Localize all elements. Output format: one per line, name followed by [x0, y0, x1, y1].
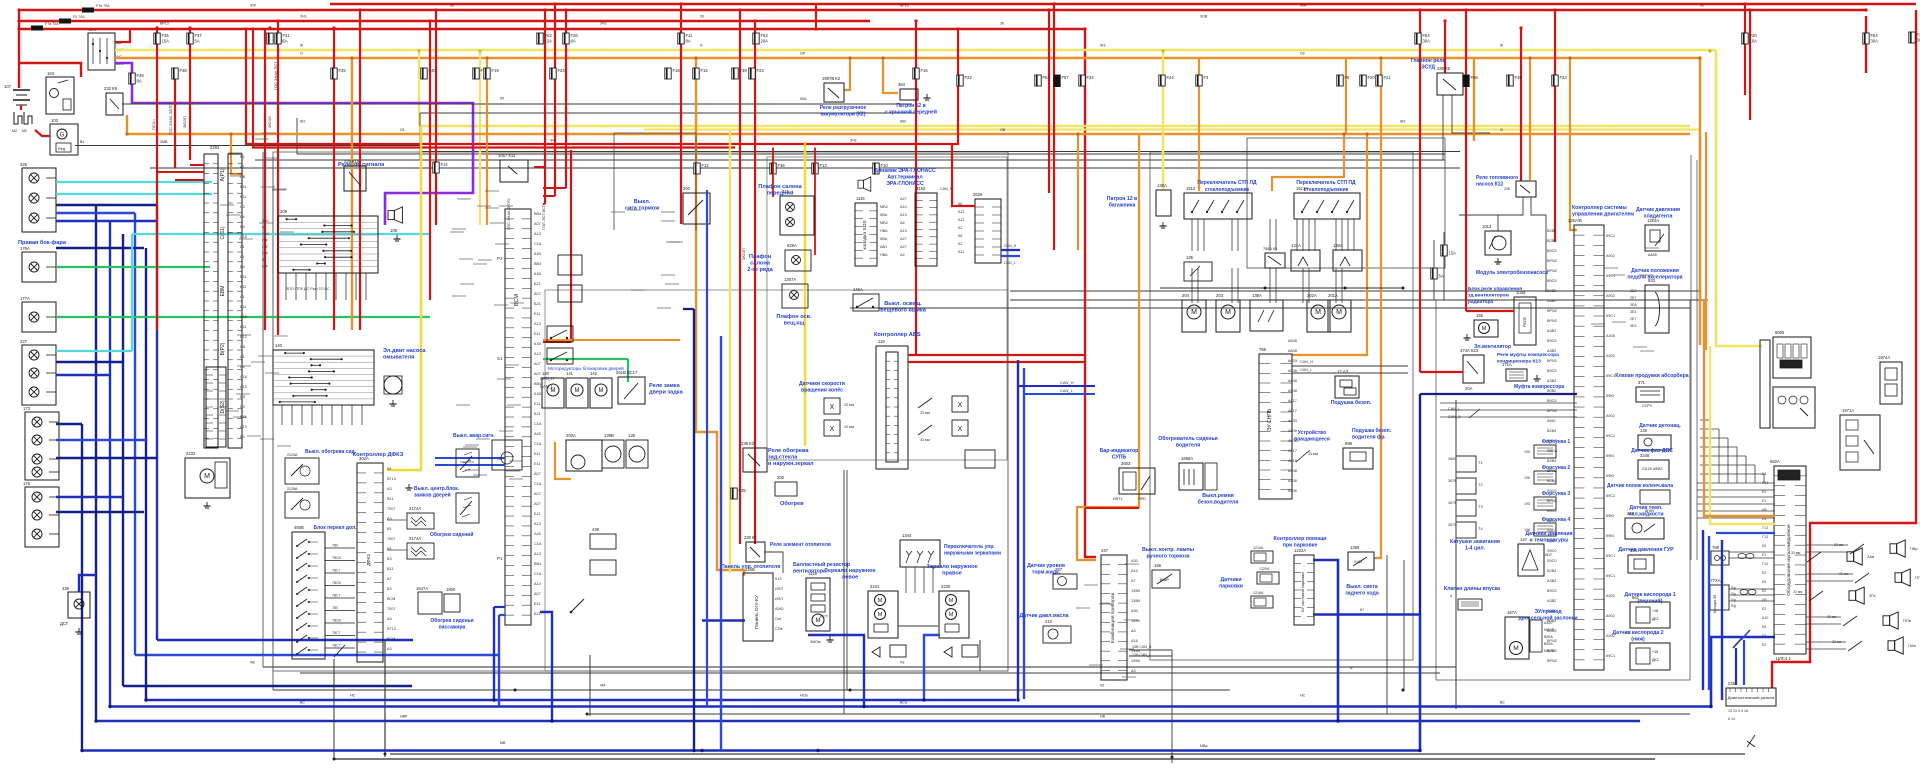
svg-text:P1: P1 [497, 556, 503, 561]
svg-text:А1: А1 [240, 165, 245, 169]
svg-text:F47: F47 [195, 33, 203, 38]
svg-text:СУПБ: СУПБ [1112, 455, 1127, 461]
svg-text:30: 30 [1700, 4, 1704, 8]
svg-text:F26: F26 [571, 33, 579, 38]
svg-text:ЗМВ: ЗМВ [160, 140, 168, 144]
svg-text:педали акселератора: педали акселератора [1627, 275, 1682, 281]
svg-text:Б21: Б21 [534, 512, 541, 516]
svg-text:238 К3: 238 К3 [741, 441, 755, 446]
svg-text:А508: А508 [1288, 389, 1297, 393]
svg-text:А508: А508 [1288, 469, 1297, 473]
svg-text:Ч3: Ч3 [900, 661, 904, 665]
svg-text:F35: F35 [739, 488, 747, 493]
svg-text:ВСМ: ВСМ [387, 637, 395, 641]
svg-text:2626: 2626 [973, 192, 983, 197]
svg-text:8A: 8A [571, 39, 576, 44]
svg-text:Г13: Г13 [1762, 562, 1768, 566]
svg-text:В1: В1 [80, 140, 84, 144]
svg-text:А45: А45 [534, 532, 541, 536]
svg-text:В3: В3 [387, 557, 392, 561]
svg-text:левое: левое [842, 575, 858, 581]
svg-text:СAN_Н: СAN_Н [1300, 360, 1313, 364]
svg-text:Е1: Е1 [1762, 499, 1766, 503]
svg-text:131А: 131А [1291, 243, 1301, 248]
svg-text:А(Р1): А(Р1) [220, 168, 226, 181]
svg-text:Датчик фаз ДВС: Датчик фаз ДВС [1631, 447, 1673, 454]
svg-text:Ч2: Ч2 [1100, 684, 1104, 688]
svg-text:НВ: НВ [1100, 715, 1106, 719]
svg-text:В713: В713 [387, 627, 396, 631]
svg-text:С1А: С1А [534, 422, 542, 426]
svg-text:А2: А2 [900, 253, 905, 257]
svg-text:6 14: 6 14 [1728, 717, 1735, 721]
svg-text:G: G [60, 133, 65, 139]
svg-text:Б21: Б21 [534, 612, 541, 616]
svg-text:ВРN2: ВРN2 [1547, 659, 1557, 663]
svg-text:А1: А1 [240, 255, 245, 259]
svg-text:7В0: 7В0 [332, 544, 338, 548]
svg-text:F57: F57 [1062, 75, 1070, 80]
svg-text:К9С2: К9С2 [1606, 234, 1615, 238]
svg-text:ЗЧ2: ЗЧ2 [850, 139, 857, 143]
svg-text:15A: 15A [162, 39, 170, 44]
svg-text:15В СAN_В: 15В СAN_В [1132, 645, 1152, 649]
svg-text:139В: 139В [1131, 589, 1140, 593]
svg-text:209: 209 [280, 209, 288, 214]
svg-text:В55А: В55А [1544, 635, 1553, 639]
svg-text:Обогреватель сиденья: Обогреватель сиденья [1158, 435, 1218, 442]
svg-text:водителя фр.: водителя фр. [1352, 434, 1386, 441]
svg-text:А13: А13 [534, 582, 541, 586]
svg-text:3679: 3679 [1448, 523, 1456, 527]
svg-text:201А: 201А [1328, 293, 1338, 298]
svg-text:F41: F41 [283, 33, 291, 38]
svg-text:МКОВ: МКОВ [1544, 628, 1555, 632]
svg-text:ЧВ: ЧВ [250, 661, 255, 665]
svg-text:7ВС7: 7ВС7 [332, 644, 340, 648]
svg-text:А3В2: А3В2 [1547, 579, 1556, 583]
svg-text:А27: А27 [900, 237, 907, 241]
svg-text:Датчик кислорода 2: Датчик кислорода 2 [1612, 630, 1663, 636]
svg-text:163: 163 [47, 71, 55, 76]
svg-text:139В: 139В [1131, 599, 1140, 603]
svg-text:267: 267 [1055, 567, 1063, 572]
svg-text:Форсунка 3: Форсунка 3 [1542, 491, 1571, 497]
svg-text:А608: А608 [1288, 379, 1297, 383]
svg-text:ДК2: ДК2 [1652, 658, 1659, 662]
svg-text:225В: 225В [745, 567, 755, 572]
svg-text:Выкл. контр. лампы: Выкл. контр. лампы [1142, 547, 1195, 553]
svg-text:А07: А07 [534, 222, 541, 226]
svg-text:В3: В3 [387, 587, 392, 591]
svg-text:2174А: 2174А [409, 506, 421, 511]
svg-text:ВСа: ВСа [900, 701, 907, 705]
svg-text:Е11: Е11 [240, 195, 246, 199]
svg-text:F24: F24 [558, 68, 566, 73]
svg-text:F20: F20 [1750, 33, 1758, 38]
svg-text:В2В4: В2В4 [1547, 569, 1556, 573]
svg-text:21129 АФИЗ: 21129 АФИЗ [1642, 467, 1663, 471]
svg-text:МВа: МВа [1200, 744, 1207, 748]
svg-text:227: 227 [20, 339, 28, 344]
svg-text:А506: А506 [1288, 369, 1297, 373]
svg-text:омывателя: омывателя [383, 355, 414, 361]
svg-text:К1В: К1В [534, 252, 541, 256]
svg-text:M: M [1191, 309, 1197, 316]
svg-text:Правая бок-фара: Правая бок-фара [18, 239, 67, 246]
svg-text:А10: А10 [1762, 616, 1768, 620]
svg-text:А07: А07 [534, 492, 541, 496]
svg-text:А2: А2 [958, 242, 962, 246]
svg-text:А13: А13 [240, 385, 247, 389]
svg-text:Подушка безоп.: Подушка безоп. [1352, 427, 1392, 434]
svg-text:А13: А13 [900, 229, 907, 233]
svg-text:Устройство: Устройство [1298, 429, 1327, 436]
svg-text:К9С2: К9С2 [1606, 494, 1615, 498]
svg-text:А11: А11 [958, 250, 964, 254]
svg-text:А6: А6 [958, 234, 962, 238]
svg-text:РЕЛЕ: РЕЛЕ [1523, 316, 1527, 327]
svg-text:А633: А633 [1288, 419, 1297, 423]
svg-text:К7: К7 [1360, 608, 1364, 612]
svg-text:X: X [958, 426, 963, 433]
svg-text:1013: 1013 [1482, 224, 1492, 229]
svg-text:M: M [878, 612, 883, 618]
svg-text:А902: А902 [1606, 414, 1615, 418]
svg-text:175: 175 [23, 481, 31, 486]
svg-text:АА05: АА05 [1648, 253, 1657, 257]
svg-text:Т3: Т3 [1478, 504, 1483, 509]
svg-text:К3: К3 [1762, 580, 1766, 584]
svg-text:Т4: Т4 [1478, 526, 1483, 531]
svg-text:В2В4: В2В4 [1547, 459, 1556, 463]
svg-text:Е11: Е11 [534, 602, 540, 606]
svg-text:багажника: багажника [1109, 202, 1136, 209]
svg-text:F21: F21 [1384, 75, 1392, 80]
svg-text:ЭУ/привод: ЭУ/привод [1534, 609, 1562, 615]
svg-text:F56: F56 [1471, 75, 1479, 80]
svg-text:699: 699 [1345, 441, 1353, 446]
svg-text:М2: М2 [12, 129, 17, 133]
svg-text:S1: S1 [497, 356, 503, 361]
svg-text:НС: НС [350, 694, 356, 698]
svg-text:А3: А3 [387, 487, 392, 491]
svg-text:А633: А633 [1288, 359, 1297, 363]
svg-text:ВРN2: ВРN2 [1547, 269, 1557, 273]
svg-text:А6: А6 [958, 202, 962, 206]
svg-text:ЗЮЗП: ЗЮЗП [182, 116, 187, 128]
svg-text:Реле обогрева: Реле обогрева [768, 447, 809, 454]
svg-text:7ВС7: 7ВС7 [332, 631, 340, 635]
svg-text:Обогрев: Обогрев [780, 500, 804, 507]
svg-text:БУ системой парковки: БУ системой парковки [1301, 572, 1305, 611]
svg-text:50: 50 [500, 97, 504, 101]
svg-text:30А: 30А [1300, 4, 1307, 8]
svg-text:1647А: 1647А [416, 586, 428, 591]
svg-text:(ниж): (ниж) [1631, 637, 1645, 643]
svg-text:В4: В4 [240, 435, 245, 439]
svg-text:Выкл. света: Выкл. света [1346, 584, 1377, 590]
svg-text:О: О [1500, 128, 1503, 132]
svg-text:вращающееся: вращающееся [1294, 437, 1330, 443]
svg-text:К5: К5 [387, 527, 391, 531]
svg-text:К9С1: К9С1 [1606, 574, 1615, 578]
svg-text:А3: А3 [387, 647, 392, 651]
svg-text:141: 141 [566, 371, 574, 376]
svg-text:Ф: Ф [262, 226, 265, 230]
svg-text:К9Ю: К9Ю [1606, 394, 1614, 398]
svg-text:1997В К2: 1997В К2 [822, 76, 841, 81]
svg-text:НВР: НВР [400, 715, 408, 719]
svg-text:Модуль электробензонасоса: Модуль электробензонасоса [1476, 269, 1548, 276]
svg-text:К9Ю: К9Ю [1606, 514, 1614, 518]
svg-text:Клапан длины впуска: Клапан длины впуска [1444, 586, 1500, 592]
svg-text:Е11: Е11 [240, 305, 246, 309]
svg-text:Контроллер системы: Контроллер системы [1572, 205, 1627, 211]
svg-text:В11: В11 [387, 497, 393, 501]
svg-text:А27: А27 [900, 245, 907, 249]
svg-text:10A: 10A [1750, 39, 1758, 44]
svg-text:В2В4: В2В4 [1547, 429, 1556, 433]
svg-text:M: M [1225, 309, 1231, 316]
svg-text:Датчик давления: Датчик давления [1636, 207, 1680, 213]
svg-text:С1А: С1А [534, 482, 542, 486]
svg-text:А902: А902 [1606, 294, 1615, 298]
svg-text:ГОС.ЗНАК.ПСТ: ГОС.ЗНАК.ПСТ [273, 61, 278, 90]
svg-text:Блок реле управления: Блок реле управления [1468, 286, 1522, 292]
svg-text:МВ2: МВ2 [880, 205, 888, 209]
svg-text:F54: F54 [1043, 75, 1051, 80]
svg-text:2128А: 2128А [287, 487, 298, 491]
svg-text:К5: К5 [387, 467, 391, 471]
svg-text:Форсунка 4: Форсунка 4 [1542, 517, 1571, 523]
svg-text:D8: D8 [240, 345, 245, 349]
svg-text:F49: F49 [137, 73, 145, 78]
svg-text:139В: 139В [1131, 659, 1140, 663]
svg-text:наружными зеркалами: наружными зеркалами [944, 551, 1001, 557]
svg-text:5A: 5A [283, 39, 288, 44]
svg-text:135: 135 [1186, 255, 1194, 260]
svg-text:Sig: Sig [1731, 604, 1736, 608]
svg-text:13 13 5 4 16: 13 13 5 4 16 [1728, 709, 1748, 713]
svg-text:Главное реле: Главное реле [1411, 58, 1446, 64]
svg-text:пассажира: пассажира [439, 625, 466, 631]
svg-text:СAN_L: СAN_L [1060, 388, 1074, 393]
svg-text:M: M [599, 388, 604, 394]
svg-text:С16: С16 [240, 315, 247, 319]
svg-text:+18: +18 [1652, 609, 1658, 613]
svg-text:Реле разгрузочное: Реле разгрузочное [820, 105, 867, 111]
svg-text:Реле топливного: Реле топливного [1476, 175, 1518, 181]
svg-text:А07: А07 [534, 472, 541, 476]
svg-text:А616: А616 [1288, 459, 1297, 463]
svg-text:244: 244 [1627, 511, 1635, 516]
svg-text:А45: А45 [534, 432, 541, 436]
svg-text:15А: 15А [1449, 251, 1457, 256]
svg-text:7007: 7007 [387, 537, 395, 541]
svg-text:371: 371 [1638, 380, 1646, 385]
svg-text:200: 200 [777, 475, 785, 480]
svg-text:30: 30 [450, 4, 454, 8]
svg-text:А5Ю: А5Ю [1547, 419, 1556, 423]
svg-text:3680: 3680 [1448, 457, 1456, 461]
svg-text:195: 195 [1524, 450, 1530, 454]
svg-text:и температуры: и температуры [1530, 538, 1570, 544]
svg-text:А3: А3 [387, 617, 392, 621]
svg-text:203А: 203А [566, 433, 576, 438]
svg-text:зад.стекла: зад.стекла [768, 455, 798, 461]
svg-text:33 мм: 33 мм [920, 438, 930, 442]
svg-text:105: 105 [390, 228, 398, 233]
svg-text:20А: 20А [1465, 386, 1473, 391]
svg-text:НФ: НФ [262, 265, 268, 269]
svg-text:НФ: НФ [262, 245, 268, 249]
svg-text:СAN_Н: СAN_Н [940, 187, 953, 191]
svg-text:ЖВ: ЖВ [900, 120, 906, 124]
svg-text:А13: А13 [534, 322, 541, 326]
svg-text:1222А: 1222А [1294, 548, 1306, 553]
svg-text:474А К33: 474А К33 [1460, 348, 1479, 353]
svg-text:Sig: Sig [1731, 592, 1736, 596]
svg-text:А3: А3 [1131, 629, 1136, 633]
svg-text:2123А: 2123А [287, 453, 298, 457]
svg-text:789: 789 [1712, 545, 1720, 550]
svg-text:Е11: Е11 [240, 285, 246, 289]
svg-text:АС/Т: АС/Т [820, 615, 829, 619]
svg-text:С2: С2 [240, 405, 245, 409]
svg-text:Датчики скорости: Датчики скорости [799, 381, 845, 387]
svg-text:155: 155 [1476, 313, 1484, 318]
svg-text:F52: F52 [545, 33, 553, 38]
svg-text:А608: А608 [1288, 339, 1297, 343]
svg-text:В9С5: В9С5 [1547, 339, 1557, 343]
svg-text:А7: А7 [1131, 579, 1136, 583]
svg-text:1513А: 1513А [1296, 186, 1308, 191]
svg-text:А16: А16 [1131, 639, 1138, 643]
svg-text:F5 70A: F5 70A [73, 15, 85, 19]
svg-text:А3В2: А3В2 [1547, 349, 1556, 353]
svg-text:ГОС.ЗНАК-ЭЛТО: ГОС.ЗНАК-ЭЛТО [168, 104, 173, 135]
svg-text:Выкл. освещ.: Выкл. освещ. [884, 301, 922, 307]
svg-text:СAN_Н: СAN_Н [1004, 244, 1017, 248]
svg-text:C(S1): C(S1) [220, 226, 226, 239]
svg-text:7ВСВ: 7ВСВ [332, 581, 341, 585]
svg-text:Е11: Е11 [534, 312, 540, 316]
svg-text:Е1: Е1 [1762, 490, 1766, 494]
svg-text:А300: А300 [1544, 621, 1552, 625]
svg-text:парковки: парковки [1219, 584, 1243, 590]
svg-text:А3В2: А3В2 [1547, 379, 1556, 383]
svg-text:Е2: Е2 [1762, 589, 1766, 593]
svg-text:ДСГ: ДСГ [60, 621, 69, 626]
svg-text:ВС: ВС [1500, 701, 1505, 705]
svg-text:С2: С2 [240, 205, 245, 209]
svg-text:двери задка: двери задка [649, 390, 684, 396]
svg-text:X: X [958, 402, 963, 409]
svg-text:Эл.двиг насоса: Эл.двиг насоса [383, 348, 426, 354]
svg-text:F3: F3 [1204, 75, 1210, 80]
svg-text:К9Ю: К9Ю [1606, 474, 1614, 478]
svg-text:заднего хода: заднего хода [1345, 591, 1379, 597]
svg-text:В4: В4 [240, 265, 245, 269]
svg-text:M: M [575, 388, 580, 394]
svg-text:ЭРА-ГЛОНАСС: ЭРА-ГЛОНАСС [886, 181, 924, 187]
svg-text:Динамик ЭРА-ГЛОНАСС: Динамик ЭРА-ГЛОНАСС [874, 168, 936, 174]
svg-text:D8: D8 [240, 175, 245, 179]
svg-text:ВР13: ВР13 [900, 4, 909, 8]
svg-text:МКОВ: МКОВ [1544, 649, 1555, 653]
svg-text:Выкл.: Выкл. [634, 199, 651, 205]
svg-text:756: 756 [1259, 347, 1267, 352]
svg-text:2230: 2230 [941, 584, 951, 589]
svg-text:передний: передний [767, 190, 794, 197]
svg-text:АD7: АD7 [1545, 553, 1552, 557]
svg-text:Зеркало наружное: Зеркало наружное [926, 564, 977, 570]
svg-text:202А: 202А [1307, 293, 1317, 298]
svg-text:3248: 3248 [1640, 453, 1650, 458]
svg-text:А30: А30 [1131, 609, 1138, 613]
svg-text:А1: А1 [240, 245, 245, 249]
svg-text:Е2: Е2 [1762, 607, 1766, 611]
svg-text:Форсунка 1: Форсунка 1 [1542, 439, 1571, 445]
svg-text:СAN_L: СAN_L [1300, 368, 1312, 372]
svg-text:В2В4: В2В4 [1547, 229, 1556, 233]
svg-text:К9Ю: К9Ю [1606, 534, 1614, 538]
svg-text:Контроллер помощи: Контроллер помощи [1274, 536, 1327, 542]
svg-text:173: 173 [23, 406, 31, 411]
svg-text:Е2: Е2 [1762, 571, 1766, 575]
svg-text:M: M [949, 612, 954, 618]
svg-text:7ВСВ: 7ВСВ [332, 619, 341, 623]
svg-text:Блок перекл дол.: Блок перекл дол. [313, 525, 357, 531]
svg-text:Форсунка 2: Форсунка 2 [1542, 465, 1571, 471]
svg-text:229 К10: 229 К10 [344, 159, 360, 164]
svg-text:7007: 7007 [387, 607, 395, 611]
svg-text:К9С1: К9С1 [1606, 274, 1615, 278]
svg-text:460В: 460В [294, 525, 304, 530]
svg-text:Балластный резистор: Балластный резистор [793, 561, 850, 568]
svg-text:С1А: С1А [534, 242, 542, 246]
svg-text:33 мм: 33 мм [920, 411, 930, 415]
svg-text:К9С1: К9С1 [1606, 554, 1615, 558]
svg-text:F64: F64 [1423, 33, 1431, 38]
svg-text:50А: 50А [800, 97, 807, 101]
svg-text:Ж2: Ж2 [300, 120, 305, 124]
svg-text:ППр: ППр [1915, 575, 1920, 580]
svg-text:Обогрев сидений: Обогрев сидений [430, 531, 473, 538]
svg-text:ЗнС: ЗнС [262, 232, 269, 236]
svg-text:ОР: ОР [800, 52, 806, 56]
svg-text:Г13: Г13 [1762, 535, 1768, 539]
svg-text:А2: А2 [958, 226, 962, 230]
svg-text:8A: 8A [686, 39, 691, 44]
svg-text:ВСМ: ВСМ [387, 597, 395, 601]
svg-text:203: 203 [1216, 293, 1224, 298]
svg-text:ВРN2: ВРN2 [1547, 259, 1557, 263]
svg-text:ЗЧГ: ЗЧГ [250, 4, 256, 8]
svg-text:Б21: Б21 [534, 282, 541, 286]
svg-text:НСВ: НСВ [800, 694, 808, 698]
svg-text:В2В4: В2В4 [1547, 239, 1556, 243]
svg-text:2231: 2231 [870, 584, 880, 589]
svg-text:Подушка безоп.: Подушка безоп. [1331, 399, 1372, 406]
svg-text:232 К9: 232 К9 [104, 86, 118, 91]
svg-text:ГОЛ.ЭСТ.ВСП: ГОЛ.ЭСТ.ВСП [541, 204, 546, 230]
svg-text:А3В2: А3В2 [1547, 329, 1556, 333]
svg-text:F48: F48 [180, 68, 188, 73]
svg-text:А07: А07 [534, 502, 541, 506]
svg-text:А13: А13 [534, 232, 541, 236]
